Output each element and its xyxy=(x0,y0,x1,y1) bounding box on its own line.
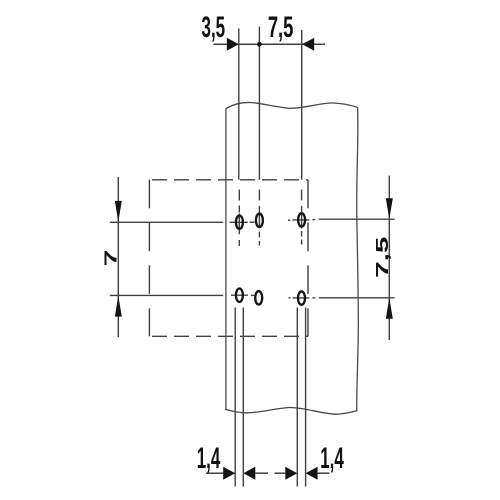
right dimension arrow down-pointing xyxy=(386,198,393,219)
top dimension dot xyxy=(257,42,262,47)
bottom row centerline dot left of hole6 xyxy=(289,297,291,299)
top row centerline dot right of hole3 xyxy=(312,219,315,221)
top dimension extension line col2 xyxy=(258,27,260,180)
top row centerline left long segment xyxy=(110,221,224,223)
col1 centerline through hole1 xyxy=(238,214,240,235)
bottom dim extension line hole6 right edge xyxy=(305,308,307,487)
top row centerline through hole1 xyxy=(235,221,248,223)
bottom dimension left arrow right-pointing xyxy=(223,467,235,480)
bottom row centerline through hole4 xyxy=(231,294,248,296)
col2 centerline dash2 below hole2 xyxy=(258,241,260,246)
board panel top break edge (wavy) xyxy=(226,102,358,108)
bottom dimension line right leader xyxy=(318,472,330,474)
bottom row centerline through hole6 xyxy=(293,297,310,299)
bottom row centerline dash after hole4 xyxy=(251,294,254,296)
top row centerline dot left of hole3 xyxy=(288,219,290,221)
dashed outline rectangle bottom edge xyxy=(152,335,308,337)
col1 centerline dash above hole1 xyxy=(238,206,240,213)
board panel left edge xyxy=(225,108,227,409)
bottom dimension left arrow left-pointing xyxy=(243,467,255,480)
bottom dimension line middle-left segment xyxy=(255,472,268,474)
svg-text:7,5: 7,5 xyxy=(268,12,294,44)
svg-text:3,5: 3,5 xyxy=(202,11,226,44)
col2 centerline dash below rect top xyxy=(258,190,260,201)
hole H6 bottom-right xyxy=(298,291,305,304)
bottom row centerline left long segment xyxy=(110,294,224,296)
col2 centerline through hole2 xyxy=(258,206,260,228)
svg-text:7: 7 xyxy=(102,250,121,267)
svg-text:7,5: 7,5 xyxy=(373,237,392,278)
col1 centerline dash below rect top xyxy=(238,190,240,201)
bottom dim extension line hole4 left edge xyxy=(234,308,236,487)
top dimension extension line col3 xyxy=(301,30,303,180)
svg-text:1,4: 1,4 xyxy=(320,442,344,475)
col3 centerline through hole3 xyxy=(301,206,303,229)
board panel bottom break edge (wavy) xyxy=(225,407,358,414)
dashed outline rectangle top edge xyxy=(152,179,308,181)
hole H4 bottom-left xyxy=(236,289,243,302)
bottom dim extension line hole6 left edge xyxy=(296,308,298,487)
bottom dim extension line hole4 right edge xyxy=(242,308,244,487)
bottom dimension line left leader xyxy=(206,472,223,474)
top row centerline right long segment xyxy=(319,218,395,220)
hole H1 top-left xyxy=(236,216,243,229)
bottom row centerline dot right of hole6 xyxy=(313,297,316,299)
hole H3 top-right xyxy=(298,213,305,226)
right dimension line xyxy=(388,176,390,340)
top dimension arrow left-pointing xyxy=(302,38,314,51)
top dimension arrow right-pointing xyxy=(227,38,239,51)
top row centerline dash after hole1 xyxy=(250,221,255,223)
bottom dimension line middle-right segment xyxy=(275,472,286,474)
dashed outline rectangle right edge xyxy=(307,180,309,336)
right dimension arrow up-pointing xyxy=(386,298,393,319)
col2 centerline dash below hole2 xyxy=(258,232,260,238)
left dimension arrow down-pointing xyxy=(115,201,122,222)
top dimension extension line col1 xyxy=(238,29,240,180)
board panel right edge (wavy) xyxy=(357,108,359,411)
bottom dimension right arrow right-pointing xyxy=(285,467,297,480)
left dimension line xyxy=(117,177,119,337)
top row centerline through hole3 xyxy=(292,219,309,221)
col3 centerline dash below hole3 xyxy=(301,231,303,237)
dashed outline rectangle left edge xyxy=(148,180,150,336)
top dimension line xyxy=(214,43,326,45)
col3 centerline dash2 below hole3 xyxy=(301,240,303,245)
svg-text:1,4: 1,4 xyxy=(197,442,221,475)
top row centerline dash before hole1 xyxy=(230,221,235,223)
col1 centerline dash below hole1 xyxy=(238,240,240,246)
bottom row centerline right long segment xyxy=(319,297,395,299)
hole H2 top-middle xyxy=(256,214,263,227)
col3 centerline dash below rect top xyxy=(301,190,303,201)
bottom dimension right arrow left-pointing xyxy=(306,467,318,480)
left dimension arrow up-pointing xyxy=(115,296,122,317)
hole H5 bottom-middle xyxy=(255,291,262,304)
